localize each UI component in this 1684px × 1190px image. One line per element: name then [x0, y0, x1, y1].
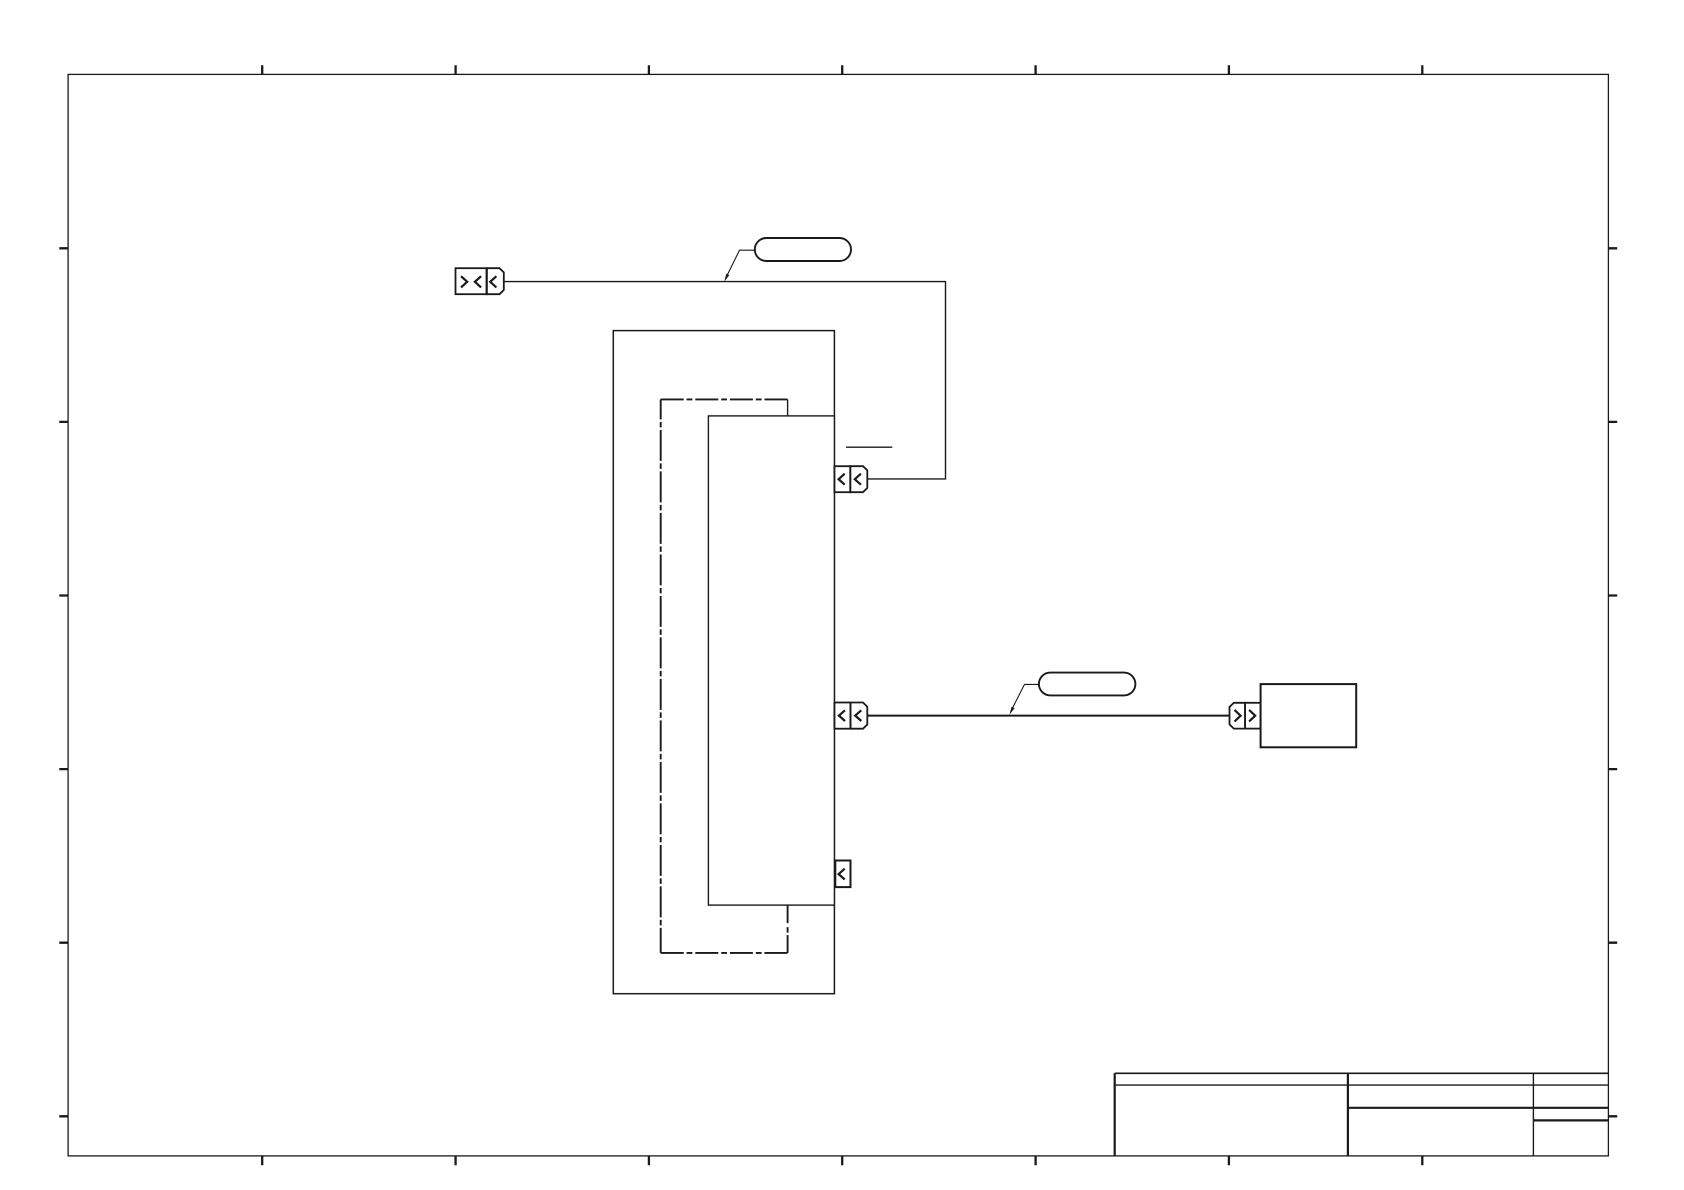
connector J4: [1230, 703, 1261, 729]
connector J2: [834, 466, 867, 492]
wire W2 from J3 to J4: [867, 715, 1229, 717]
wire W1 from J1 to J2: [504, 282, 946, 479]
outer harness box: [613, 331, 834, 994]
callout label 2: [1010, 673, 1136, 715]
title block: [1115, 1073, 1609, 1156]
shield dash-dot outline: [661, 399, 788, 953]
connector J1: [456, 268, 504, 294]
callout label 1: [724, 238, 851, 282]
connector J3: [834, 703, 867, 729]
component box U1: [1261, 684, 1357, 747]
underline blank label: [846, 446, 892, 448]
inner connector body box: [708, 416, 834, 905]
connector J5: [835, 861, 850, 888]
